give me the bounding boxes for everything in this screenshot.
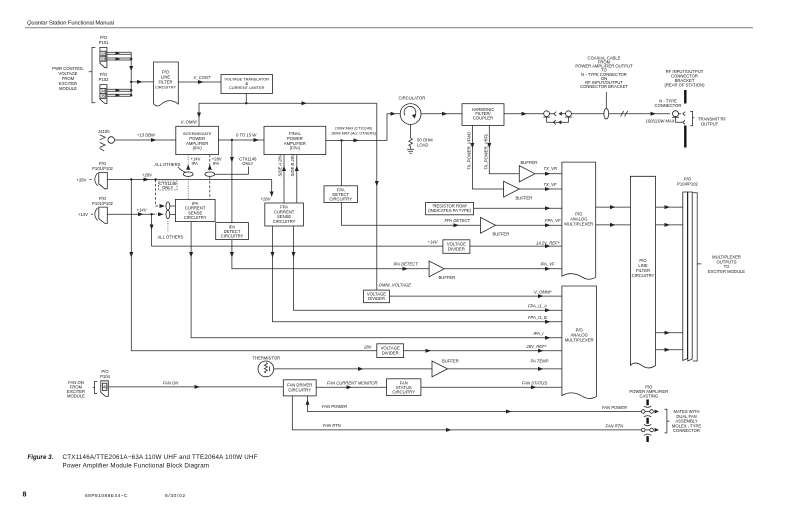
wire FPA junction down to FPA detect box: [341, 140, 343, 185]
svg-text:+14V: +14V: [137, 207, 148, 212]
svg-text:FAN CURRENT MONITOR: FAN CURRENT MONITOR: [327, 381, 378, 386]
svg-text:V_CONT: V_CONT: [194, 75, 211, 80]
svg-text:P101/P102: P101/P102: [92, 166, 113, 171]
svg-text:TX_POWER_VRFL: TX_POWER_VRFL: [484, 133, 489, 170]
svg-text:CIRCUITRY: CIRCUITRY: [288, 387, 311, 392]
svg-text:(IPA): (IPA): [193, 146, 203, 151]
wire IPA DETECT to buffer: [232, 240, 429, 269]
callout line from ALL OTHERS to dotted line: [178, 167, 187, 173]
wire resistor ROM to mux: [474, 207, 562, 209]
svg-text:+14V: +14V: [78, 212, 88, 217]
svg-text:FPA_VF: FPA_VF: [545, 218, 561, 223]
bracket mates with: [664, 409, 669, 433]
svg-text:IPA: IPA: [213, 161, 220, 166]
box: P/O line filter circuitry 2 (torn bottom): [630, 176, 655, 368]
box: IPA current sense circuitry: [175, 199, 215, 221]
svg-text:CTX1146A/TTE2061A−63A 110W UHF: CTX1146A/TTE2061A−63A 110W UHF and TTE20…: [63, 454, 258, 461]
svg-text:ONLY: ONLY: [162, 185, 173, 190]
ferrite bead B2: [166, 210, 170, 218]
svg-text:BUFFER: BUFFER: [516, 196, 533, 201]
wire mux1 out 2: [596, 224, 631, 226]
dotted tail below bead B2: [167, 219, 169, 233]
bus vertical wire: [130, 52, 132, 96]
pin 33: [100, 56, 106, 61]
svg-text:ONLY: ONLY: [242, 161, 253, 166]
wire 28V_REF* to mux: [404, 350, 562, 352]
svg-text:180W MAX (ALL OTHERS): 180W MAX (ALL OTHERS): [331, 132, 377, 136]
svg-text:FAN RTN: FAN RTN: [606, 424, 625, 429]
svg-text:Power Amplifier Module Functio: Power Amplifier Module Functional Block …: [63, 462, 210, 469]
connector P101: [100, 47, 107, 67]
wire filter out 2: [656, 224, 683, 226]
wire IPA to FPA, 0 TO 15 W: [219, 139, 265, 141]
casting feedthrough arcs fan rtn: [644, 424, 651, 435]
connector P101/P102 (+14V) label: [92, 196, 113, 206]
RF input/output bracket text: [664, 69, 705, 88]
wire harmonic filter to RF connectors: [504, 113, 545, 115]
svg-text:PA TEMP: PA TEMP: [531, 358, 549, 363]
coaxial cable oval marker: [604, 108, 609, 119]
wire FPA_I1_A: [294, 226, 562, 310]
bracket: [95, 173, 98, 186]
svg-text:V_OMNI*: V_OMNI*: [534, 289, 552, 294]
box: P/O line filter circuitry 1 (torn bottom): [154, 62, 179, 106]
op-amp buffer U_TXVF: [504, 181, 520, 197]
header rule: [25, 27, 753, 29]
wire FPA output: [326, 114, 400, 141]
svg-text:CONNECTOR: CONNECTOR: [655, 103, 682, 108]
pin 32: [100, 51, 106, 56]
svg-text:28V: 28V: [363, 345, 373, 350]
wire IPA_I from current sense: [191, 222, 562, 338]
svg-text:V_OMNI: V_OMNI: [181, 120, 198, 125]
connector: N-type: [673, 111, 679, 117]
box: resistor ROM: [426, 202, 474, 214]
wire bus to line filter 1: [131, 81, 153, 83]
svg-text:CONNECTOR BRACKET: CONNECTOR BRACKET: [580, 84, 628, 89]
svg-text:CONNECTOR: CONNECTOR: [673, 428, 700, 433]
svg-text:8/30/02: 8/30/02: [165, 493, 185, 499]
svg-text:CIRCUITRY: CIRCUITRY: [184, 215, 207, 220]
svg-text:MODULE: MODULE: [59, 86, 77, 91]
wire TX_VF to mux: [519, 188, 562, 190]
connector: PA output mating pair: [544, 111, 550, 117]
ferrite bead B1: [166, 202, 170, 210]
wire VT box down to omni node: [245, 94, 247, 104]
svg-text:IPA: IPA: [192, 161, 199, 166]
svg-text:IPA_VF: IPA_VF: [541, 262, 556, 267]
svg-text:33: 33: [101, 56, 106, 61]
pin 34: [100, 88, 106, 93]
wire OMNI_VOLTAGE long vertical: [376, 103, 378, 290]
wire break symbol: [621, 111, 628, 117]
svg-text:CIRCUITRY: CIRCUITRY: [155, 85, 177, 90]
svg-text:EXCITER MODULE: EXCITER MODULE: [708, 269, 745, 274]
svg-text:ALL OTHERS: ALL OTHERS: [158, 235, 184, 240]
bracket: [95, 208, 98, 221]
svg-text:0 TO 15 W: 0 TO 15 W: [236, 132, 257, 137]
connector P104 pin 48: [101, 381, 109, 397]
svg-text:35: 35: [101, 94, 106, 99]
svg-text:SIDE B 28V: SIDE B 28V: [290, 153, 295, 177]
connector P101/P102 (+28V) label: [92, 161, 113, 171]
svg-text:+28V: +28V: [261, 196, 272, 201]
svg-text:P104/P102: P104/P102: [677, 181, 698, 186]
svg-text:Quantar Station Functional Man: Quantar Station Functional Manual: [27, 21, 114, 27]
svg-text:DIVIDER: DIVIDER: [382, 350, 399, 355]
svg-text:FAN ON: FAN ON: [163, 380, 179, 385]
wire +14V down to 14.2V divider: [152, 214, 443, 246]
wire PA TEMP to mux: [448, 368, 562, 370]
casting wall (thick): [646, 400, 648, 443]
wire FPA_DETECT to buffer: [342, 203, 481, 226]
connector P102 label: [99, 72, 109, 82]
text multiplexer outputs: [708, 255, 745, 274]
svg-text:BUFFER: BUFFER: [521, 160, 538, 165]
svg-text:CASTING: CASTING: [639, 394, 658, 399]
svg-text:OUTPUT: OUTPUT: [701, 122, 719, 127]
label +14V IPA: [191, 157, 201, 167]
box: fan status circuitry: [387, 379, 421, 396]
connector P102: [100, 85, 107, 104]
svg-text:(FPA): (FPA): [290, 146, 301, 151]
box: voltage translator & current limiter: [221, 75, 273, 94]
callout line from coax text: [605, 92, 607, 108]
wire FAN POWER: [308, 396, 642, 412]
svg-text:(REAR OF STATION): (REAR OF STATION): [664, 83, 705, 88]
svg-text:Figure 3.: Figure 3.: [28, 454, 54, 461]
wire IPA_VF to mux: [444, 268, 562, 270]
svg-text:CIRCUITRY: CIRCUITRY: [221, 234, 244, 239]
svg-text:+13 DBM: +13 DBM: [137, 132, 155, 137]
svg-text:CIRCUITRY: CIRCUITRY: [329, 197, 352, 202]
wire +28V net: [107, 180, 271, 197]
PWR CONTROL text block: [52, 66, 84, 91]
svg-text:28V_REF*: 28V_REF*: [526, 344, 547, 349]
svg-text:P101: P101: [99, 40, 109, 45]
svg-text:ALL OTHERS: ALL OTHERS: [155, 162, 181, 167]
wire FAN CURRENT MONITOR: [316, 386, 386, 388]
svg-text:FAN STATUS: FAN STATUS: [522, 381, 547, 386]
op-amp buffer U_FPAVF: [481, 217, 496, 233]
svg-text:P104: P104: [100, 374, 110, 379]
op-amp buffer U_TXVR: [519, 166, 535, 182]
svg-text:J4100: J4100: [98, 129, 110, 134]
wire 14.2V_REF to mux: [470, 245, 562, 247]
wire pin34 to bus: [106, 89, 131, 91]
op-amp block: final power amplifier FPA: [264, 126, 326, 154]
op-amp buffer U_IPAVF: [429, 261, 444, 277]
bracket for transmit RF output: [690, 111, 694, 125]
svg-text:CURRENT LIMITER: CURRENT LIMITER: [229, 85, 265, 90]
box: P/O analog multiplexer 2 (torn top and bottom): [562, 286, 597, 399]
bracket multiplexer outputs: [693, 193, 702, 361]
wire pin33 to bus: [106, 58, 131, 60]
connector pair fan rtn: [641, 428, 645, 432]
transmit RF output text: [698, 117, 727, 127]
wire pin32 to bus (twin line): [106, 52, 131, 54]
connector P104/P102 label: [677, 177, 698, 187]
box: P/O analog multiplexer 1 (torn bottom): [562, 162, 596, 279]
op-amp buffer U_PATEMP: [432, 361, 448, 377]
ground: [407, 149, 414, 153]
svg-text:MODULE: MODULE: [67, 394, 85, 399]
wire filter out 4: [656, 349, 683, 351]
wire PA TEMP to buffer: [274, 368, 432, 370]
box: FPA current sense circuitry: [265, 203, 304, 226]
wire -28V bus down to 28V divider: [131, 180, 376, 351]
wire to coax marker: [571, 113, 670, 115]
label CTX1146 ONLY with callout: [239, 157, 257, 167]
wire pin35 to bus: [106, 94, 131, 96]
wire IPA output down to IPA detect: [231, 140, 233, 223]
coax cable text block: [575, 55, 633, 89]
svg-text:+14V: +14V: [428, 240, 439, 245]
connector pair fan power: [641, 410, 645, 414]
box: IPA detect circuitry: [216, 223, 249, 240]
wire line filter to voltage translator, net V_CONT: [178, 81, 221, 83]
svg-text:14.2V_REF*: 14.2V_REF*: [536, 241, 560, 246]
wire V_OMNI down into IPA: [198, 103, 200, 126]
svg-text:FPA_I1_B: FPA_I1_B: [528, 315, 547, 320]
svg-text:MULTIPLEXER: MULTIPLEXER: [564, 222, 593, 227]
wire FPA side A feed: [283, 155, 285, 203]
bracket: [93, 382, 97, 394]
node dots on bus: [130, 58, 132, 60]
wire +14V net: [107, 213, 151, 215]
wire: dashed +28V CTX1146 path to IPA current sense: [156, 180, 164, 207]
svg-text:FAN RTN: FAN RTN: [323, 423, 342, 428]
wire V_OMNI* to mux: [390, 295, 562, 297]
wire TX_POWER_VRFL: [489, 125, 519, 173]
text mates with dual fan: [672, 409, 701, 433]
wire omni horizontal net: [199, 102, 377, 104]
svg-text:BUFFER: BUFFER: [493, 232, 510, 237]
box: harmonic filter / coupler: [462, 104, 504, 126]
dashed box CTX1146 ONLY: [159, 181, 178, 190]
box: fan driver circuitry: [283, 380, 316, 396]
svg-text:CIRCUITRY: CIRCUITRY: [632, 273, 655, 278]
connector P104 label: [100, 369, 110, 379]
svg-text:P102: P102: [99, 77, 109, 82]
svg-text:LOAD: LOAD: [417, 143, 428, 148]
wire FPA_VF to mux: [496, 224, 562, 226]
N-type connector label: [655, 99, 682, 109]
ferrite bead B3: [183, 172, 193, 176]
svg-text:COUPLER: COUPLER: [473, 116, 493, 121]
wire J4100 to IPA, +13 DBM: [115, 139, 176, 141]
pin 35: [100, 93, 106, 98]
FAN ON text block: [67, 380, 85, 399]
svg-text:CIRCUITRY: CIRCUITRY: [392, 390, 415, 395]
svg-text:TX_VR: TX_VR: [544, 166, 558, 171]
svg-text:(INDICATES PA TYPE): (INDICATES PA TYPE): [428, 208, 472, 213]
svg-text:68P81088E44–C: 68P81088E44–C: [85, 493, 128, 499]
svg-text:IPA DETECT: IPA DETECT: [394, 262, 419, 267]
svg-text:FAN POWER: FAN POWER: [602, 405, 627, 410]
connector strip 2: [688, 192, 692, 361]
wire TX_POWER_VFWD: [472, 125, 503, 189]
connector shape +28V: [99, 172, 108, 188]
connector shape +14V: [99, 207, 108, 223]
wire mux1 out 1: [596, 206, 631, 208]
wire FAN RTN: [292, 396, 641, 430]
svg-text:THERMISTOR: THERMISTOR: [253, 355, 281, 360]
svg-text:CIRCUITRY: CIRCUITRY: [273, 219, 296, 224]
casting feedthrough arcs fan power: [644, 406, 651, 417]
wire filter out 1: [656, 206, 683, 208]
svg-text:SIDE A 28V: SIDE A 28V: [277, 153, 282, 176]
svg-text:TX_POWER_VFWD: TX_POWER_VFWD: [467, 132, 472, 170]
svg-text:DIVIDER: DIVIDER: [448, 246, 465, 251]
connector P101 label: [99, 35, 109, 45]
box: FPA detect circuitry: [324, 186, 358, 203]
label +28V IPA: [212, 157, 222, 167]
P/O power amplifier casting text: [629, 384, 668, 398]
wire: dash-dot +14V to IPA current sense: [152, 213, 164, 215]
box: voltage divider (14.2V ref): [443, 240, 470, 254]
wire FAN STATUS to mux: [421, 386, 562, 388]
svg-text:BUFFER: BUFFER: [442, 358, 459, 363]
svg-text:TX_VF: TX_VF: [544, 182, 557, 187]
op-amp block: intermediate power amplifier IPA: [176, 126, 219, 154]
svg-text:IPA_I: IPA_I: [534, 331, 545, 336]
svg-text:48: 48: [103, 385, 108, 390]
wire FPA_I1_B: [273, 226, 562, 322]
svg-text:BUFFER: BUFFER: [439, 275, 456, 280]
ferrite bead B4: [205, 172, 215, 176]
label 100W MAX: [331, 127, 377, 136]
svg-text:8: 8: [23, 490, 27, 499]
svg-text:100W MAX (CTX1146): 100W MAX (CTX1146): [335, 127, 373, 131]
wire FPA side B feed: [296, 155, 298, 203]
svg-text:100/110W MAX: 100/110W MAX: [646, 119, 675, 124]
box: voltage divider (28V ref): [377, 344, 404, 358]
svg-text:OMNI_VOLTAGE: OMNI_VOLTAGE: [379, 283, 412, 288]
svg-text:FPA DETECT: FPA DETECT: [445, 218, 471, 223]
svg-text:FAN POWER: FAN POWER: [322, 404, 347, 409]
wire circulator to harmonic filter: [421, 113, 462, 115]
svg-text:CIRCULATOR: CIRCULATOR: [399, 96, 426, 101]
RF bracket panel (thick): [684, 90, 686, 148]
wire TX_VR to mux: [535, 173, 562, 175]
connector strip 1: [683, 192, 688, 361]
resistor: 50 ohm load: [409, 138, 413, 149]
svg-text:+28V: +28V: [77, 177, 87, 182]
svg-text:P101/P102: P101/P102: [92, 201, 113, 206]
bracket for PWR CONTROL connectors: [89, 47, 96, 102]
svg-text:+28V: +28V: [142, 173, 153, 178]
svg-text:MULTIPLEXER: MULTIPLEXER: [565, 338, 594, 343]
wire: dashed +28V IPA feed: [209, 155, 211, 200]
svg-text:FPA_I1_A: FPA_I1_A: [528, 303, 547, 308]
wire filter out 3: [656, 332, 683, 334]
box: voltage divider (omni): [364, 290, 390, 303]
svg-text:DIVIDER: DIVIDER: [368, 296, 385, 301]
wire: dotted +14V IPA feed: [187, 155, 189, 200]
wire circulator to load: [410, 124, 412, 138]
wire FAN ON: [109, 386, 283, 388]
